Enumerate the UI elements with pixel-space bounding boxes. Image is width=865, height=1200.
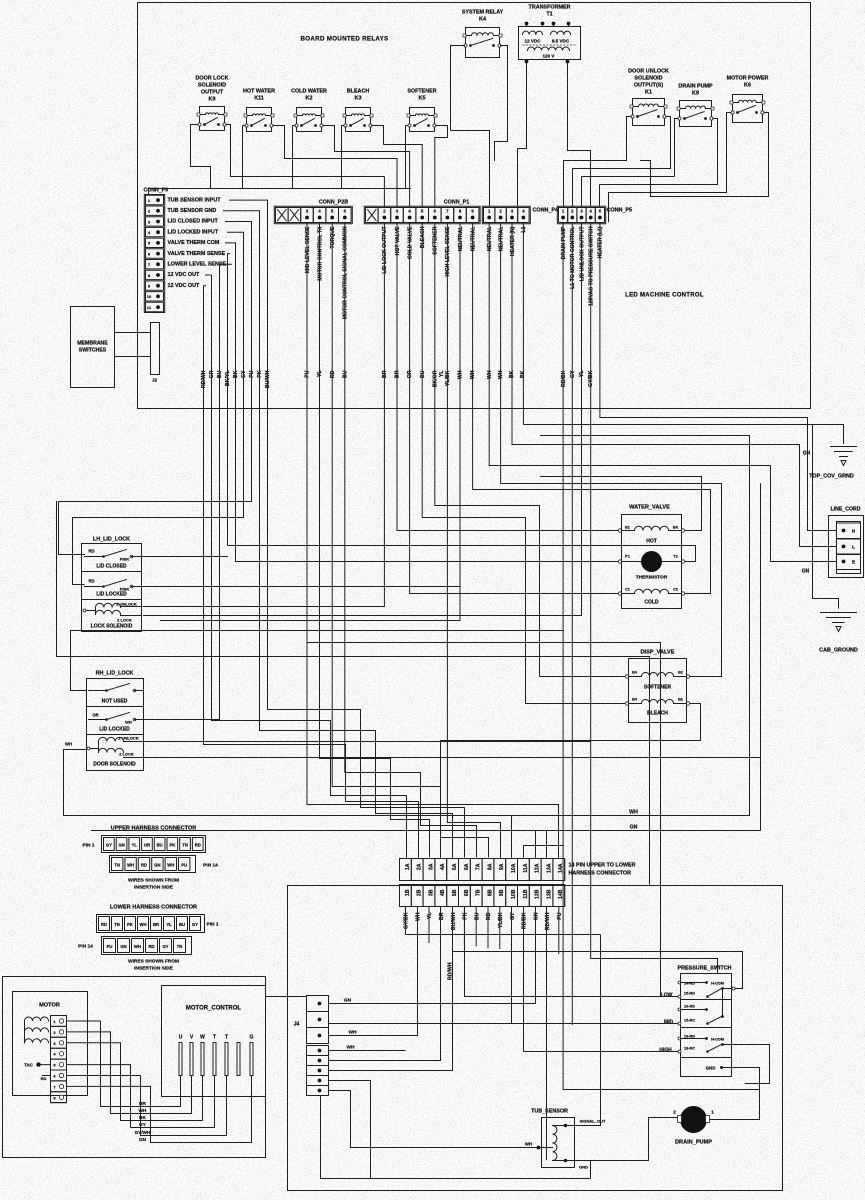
svg-text:11A: 11A [523,863,529,872]
lead [539,1147,553,1149]
svg-text:15-RD: 15-RD [684,992,695,996]
svg-text:TUB_SENSOR: TUB_SENSOR [531,1109,568,1115]
lead [681,982,706,984]
svg-text:BR: BR [153,922,159,927]
svg-text:VALVE THERM SENSE: VALVE THERM SENSE [168,251,226,257]
wire relay rail [149,188,411,190]
x [368,210,377,221]
svg-text:HARNESS CONNECTOR: HARNESS CONNECTOR [569,871,632,877]
wire 13A stub [546,831,548,858]
wire tub signal out [406,907,601,1126]
svg-text:TOP_COV_GRND: TOP_COV_GRND [809,474,854,480]
svg-text:TN: TN [177,944,183,949]
svg-text:K6: K6 [744,83,751,89]
svg-text:NEUTRAL: NEUTRAL [498,226,504,252]
svg-text:LH_LID_LOCK: LH_LID_LOCK [93,537,130,543]
14 pin upper to lower harness connector [400,859,636,907]
svg-text:WH: WH [65,742,72,747]
lead [124,757,144,759]
svg-text:J2: J2 [152,378,158,383]
lead [680,108,686,110]
svg-text:LID LOCK OUTPUT: LID LOCK OUTPUT [382,226,388,274]
svg-text:3A: 3A [428,863,434,870]
svg-text:WH: WH [629,810,638,816]
thermistor [618,560,621,563]
x [290,210,299,221]
wire neutral 2 [473,224,711,594]
lower harness connector [78,905,219,972]
lead [674,703,687,705]
svg-text:COLD WATER: COLD WATER [291,89,327,95]
svg-text:LID LOCKED: LID LOCKED [96,592,127,598]
svg-text:BLEACH: BLEACH [647,711,668,717]
relay K11 [243,89,275,132]
sw [685,112,705,119]
wire 12vdc out b [204,286,419,858]
lead [200,114,206,116]
wire J4 b5 [329,1091,537,1148]
wire K9 right to CONN_P1 pin1 [226,125,384,207]
lead [466,35,472,37]
svg-text:YL: YL [579,370,585,377]
svg-text:MID LEVEL SENSE: MID LEVEL SENSE [305,226,311,273]
lead [135,719,144,721]
sw [415,119,428,126]
wire bleach right loop [441,704,701,858]
low com out [723,988,732,990]
svg-text:PU: PU [107,944,113,949]
sw [351,119,364,126]
svg-text:120VAC TO PRESSURE SWITCH: 120VAC TO PRESSURE SWITCH [589,226,595,306]
wire 6B stub [463,907,465,946]
svg-text:BLEACH: BLEACH [420,226,426,248]
svg-text:MOTOR POWER: MOTOR POWER [727,76,769,82]
svg-text:MOTOR CONTROL TX: MOTOR CONTROL TX [317,226,323,281]
svg-text:WH: WH [167,863,174,868]
connector CONN_P1 [364,200,480,224]
membrane wire [115,332,151,334]
wire bleach valve [422,224,627,704]
wire J4 b2 [329,907,441,1061]
svg-text:BR: BR [439,912,445,920]
sw [638,110,658,117]
sw [104,580,127,587]
wire hot valve [397,224,620,531]
wire water valve top loop [541,436,750,816]
wire pressure mid J4 L [329,1023,679,1025]
svg-text:MOTOR: MOTOR [39,1003,60,1009]
svg-text:CONN_P5: CONN_P5 [607,208,632,214]
pressure switch [659,966,735,1077]
svg-text:MOTOR CONTROL SIGNAL COMMON: MOTOR CONTROL SIGNAL COMMON [343,226,349,319]
membrane switches box [71,307,115,388]
svg-text:YL: YL [166,922,172,927]
svg-text:L: L [852,545,855,550]
sw [302,119,315,126]
drain pump [673,1106,714,1146]
membrane wire [115,356,151,358]
divider [681,1027,732,1029]
lead [266,115,272,117]
motor wire BK [67,1043,203,1121]
wire rd/wh low com feed [453,907,743,989]
svg-text:2: 2 [673,1110,676,1115]
gnd3 [833,622,845,624]
svg-text:4A: 4A [440,863,446,870]
connector CONN_P9 [144,188,169,313]
svg-text:RD: RD [88,579,94,584]
motor wire BR [67,1021,181,1107]
svg-text:2A: 2A [417,863,423,870]
svg-text:DOOR SOLENOID: DOOR SOLENOID [93,762,136,768]
wire 2B down [417,907,419,1037]
svg-text:GY/WH: GY/WH [135,1130,151,1135]
svg-text:13A: 13A [546,863,552,873]
svg-text:4B: 4B [440,889,446,896]
lead [85,556,104,558]
wire tub sensor input [230,200,465,857]
svg-text:GY: GY [241,370,247,378]
wire rail drop to CONN_P9 [148,189,150,195]
lead [135,690,144,692]
wire neutral to line cord N [489,224,836,562]
svg-text:CAB_GROUND: CAB_GROUND [819,648,858,654]
svg-text:RD/BK: RD/BK [522,912,528,929]
svg-text:PIN 1: PIN 1 [207,922,219,928]
svg-text:SYSTEM RELAY: SYSTEM RELAY [462,10,504,16]
wire drain pump left [591,1118,678,1161]
lead [706,108,712,110]
lead [316,115,322,117]
coil lead [98,742,100,753]
svg-text:HEATER (L1): HEATER (L1) [598,226,604,258]
svg-text:YL: YL [132,843,138,848]
wire K5 right to SOFTENER pin [435,126,448,207]
svg-text:RD: RD [148,944,154,949]
lead [89,719,107,721]
wire cold valve [410,224,620,594]
tac lead [39,1064,51,1066]
svg-text:2 LOCK: 2 LOCK [119,752,134,757]
wire rh wh [64,750,88,816]
lead [733,102,739,104]
svg-text:YL: YL [427,912,433,919]
wire T1 bottom pin2 to CONN_P5 [568,62,591,207]
svg-text:WH: WH [125,720,132,725]
x [278,210,287,221]
svg-text:WH: WH [487,370,493,379]
wire K6 right pin [641,113,769,197]
svg-text:WIRES SHOWN FROM: WIRES SHOWN FROM [128,878,179,884]
svg-text:BLEACH: BLEACH [347,89,370,95]
svg-text:K8: K8 [692,91,699,97]
svg-text:3B: 3B [428,889,434,896]
svg-text:SIGNAL_OUT: SIGNAL_OUT [580,1119,606,1124]
svg-text:BU: BU [420,370,426,378]
svg-text:NEUTRAL: NEUTRAL [470,226,476,252]
svg-text:LOW: LOW [661,993,673,999]
lead [622,530,635,532]
svg-text:BU: BU [217,370,223,378]
wire hot right loop [541,477,702,531]
svg-text:VALVE THERM COM: VALVE THERM COM [168,240,220,246]
relay K1 [628,69,669,126]
high com out [723,1044,732,1046]
svg-text:WATER_VALVE: WATER_VALVE [629,505,670,511]
svg-text:THERMISTOR: THERMISTOR [636,575,668,581]
lead [132,556,142,558]
svg-text:LID LOCKED INPUT: LID LOCKED INPUT [168,229,219,235]
svg-text:GY: GY [570,370,576,378]
wire RD to 8A [332,224,488,858]
svg-text:WH: WH [140,922,147,927]
wire GN ground wire [92,484,761,831]
pin stub [553,24,555,27]
svg-text:BU/WH: BU/WH [265,370,271,388]
sw [107,713,130,720]
motor coil bus [24,1021,26,1043]
wire drain pump feed [563,224,759,1120]
motor assembly [13,992,88,1103]
svg-text:GY: GY [162,944,168,949]
svg-text:HOT: HOT [646,539,657,545]
svg-text:LID LOCKED: LID LOCKED [99,727,130,733]
svg-text:SOLENOID: SOLENOID [634,76,662,82]
wire 7B stub [475,907,477,947]
svg-text:GY: GY [510,912,516,920]
svg-text:GN: GN [139,1137,147,1142]
lead [553,1160,566,1162]
wire K5 left pin [406,126,409,189]
svg-text:P/BK: P/BK [120,587,130,592]
sw [107,684,130,691]
svg-text:SOFTENER: SOFTENER [433,226,439,254]
svg-text:P1: P1 [625,555,630,559]
svg-text:E: E [852,560,855,565]
svg-text:13B: 13B [546,889,552,899]
wire T1 bottom pin to CONN_P4 L1 [518,62,527,207]
svg-text:WH: WH [127,863,134,868]
tub sensor [525,1109,606,1170]
connector CONN_P2B [274,200,352,224]
wire J4 b4 [329,1081,371,1179]
upper harness connector [83,826,219,891]
relay K5 [407,89,437,132]
svg-text:RD/WH: RD/WH [201,370,207,388]
svg-text:DRAIN_PUMP: DRAIN_PUMP [675,1140,712,1146]
svg-text:INSERTION SIDE: INSERTION SIDE [134,885,173,891]
pin stub [526,24,528,27]
svg-text:RD: RD [88,549,94,554]
wire 12vdc out a [206,275,407,857]
wire K11 left pin [243,126,246,189]
svg-text:BOARD MOUNTED RELAYS: BOARD MOUNTED RELAYS [301,36,389,43]
wire 10A stub [511,816,513,858]
lead [674,676,687,678]
dispenser valve assembly [625,650,689,723]
svg-text:2 LOCK: 2 LOCK [117,618,132,623]
svg-text:COLD: COLD [644,600,659,606]
svg-text:CONN_P2B: CONN_P2B [319,200,348,206]
lead [629,703,642,705]
lead [85,586,104,588]
svg-text:WH: WH [458,370,464,379]
svg-text:GN: GN [630,825,638,831]
wire left bus 656 [57,502,650,885]
gnd2 [827,617,851,619]
svg-text:15-RC: 15-RC [684,1019,695,1023]
lead [662,561,682,563]
svg-text:2B: 2B [417,889,423,896]
svg-text:12B: 12B [535,889,541,899]
LH lid lock box [82,537,142,632]
svg-text:GY: GY [106,843,112,848]
wire neutral L [512,224,837,547]
svg-text:TN: TN [114,863,120,868]
wire MC to J4 [266,996,307,998]
svg-text:K4: K4 [479,17,486,23]
svg-text:TN: TN [182,843,188,848]
svg-text:SWITCHES: SWITCHES [79,348,107,354]
wire lid closed out [142,556,228,558]
wire K2 right to COLD VALVE pin [323,126,410,207]
svg-text:YL/BK: YL/BK [498,912,504,928]
lead [297,115,303,117]
wire K1 right pin [573,117,671,207]
svg-text:DISP_VALVE: DISP_VALVE [641,650,675,656]
svg-text:TUB SENSOR GND: TUB SENSOR GND [168,208,217,214]
divider [681,999,732,1001]
svg-text:TRANSFORMER: TRANSFORMER [529,5,571,11]
lead [365,115,371,117]
svg-text:HEATER (N): HEATER (N) [510,226,516,256]
svg-text:DRAIN PUMP: DRAIN PUMP [561,226,567,259]
lead [89,690,107,692]
svg-text:LOWER HARNESS CONNECTOR: LOWER HARNESS CONNECTOR [110,905,197,911]
svg-text:GN: GN [802,569,810,575]
divider [82,571,142,573]
svg-text:B2: B2 [678,671,683,675]
gnd1 [831,446,857,448]
svg-text:7B: 7B [476,889,482,896]
svg-text:PU: PU [557,912,563,919]
lead [553,1125,566,1127]
svg-text:10: 10 [147,294,152,299]
svg-text:OR: OR [92,713,98,718]
svg-text:RD: RD [41,1076,47,1081]
lead [121,615,142,617]
wire J4 b3 [329,907,453,1071]
lead [410,115,416,117]
svg-text:MID: MID [664,1020,674,1026]
wire softener valve [435,224,627,677]
wire 14B stub [558,907,560,954]
wire L1 to motor control [571,224,573,1025]
coil lead [90,748,99,750]
svg-text:5B: 5B [452,889,458,896]
sw [708,1045,722,1052]
svg-text:K2: K2 [306,96,313,102]
svg-text:BK: BK [233,370,239,378]
tac lead2 [43,1075,51,1077]
svg-text:L1: L1 [521,226,527,232]
lead [124,741,144,743]
wire K4 left pin [451,46,490,207]
svg-text:OUTPUT(S): OUTPUT(S) [634,83,664,89]
svg-text:12 VDC OUT: 12 VDC OUT [168,272,200,278]
lead [429,115,435,117]
svg-text:BR: BR [395,370,401,378]
svg-text:RD: RD [195,843,201,848]
wire heater L1 to line cord [600,224,837,531]
svg-text:WIRES SHOWN FROM: WIRES SHOWN FROM [128,959,179,965]
svg-text:RD: RD [330,370,336,378]
relay K9 [196,76,229,131]
wire valve therm com [226,243,621,562]
ground CAB_GROUND [819,613,858,654]
wire high level sense [447,224,500,858]
divider [87,706,144,708]
x [368,210,377,221]
svg-text:GR: GR [209,370,215,378]
svg-text:UPPER HARNESS CONNECTOR: UPPER HARNESS CONNECTOR [111,826,197,832]
sw [708,989,722,997]
svg-text:12 VDC: 12 VDC [524,39,541,44]
lead [629,676,642,678]
svg-text:C2: C2 [673,588,678,592]
svg-text:LOWER LEVEL SENSE: LOWER LEVEL SENSE [168,262,227,268]
svg-text:T: T [225,1035,228,1041]
wire YL to 3A [320,224,430,858]
svg-text:C1: C1 [625,588,630,592]
x [290,210,299,221]
svg-text:GND: GND [706,1066,716,1071]
svg-text:WH: WH [347,1045,356,1051]
svg-text:16-RD: 16-RD [684,1035,695,1039]
svg-text:P/BK: P/BK [120,557,130,562]
wire pressure mid drop [511,907,513,1024]
lead [622,593,635,595]
lead [121,606,142,608]
svg-text:BU/WH: BU/WH [451,912,457,930]
wire K6 left pin [609,113,732,223]
svg-text:LID CLOSED: LID CLOSED [96,564,127,570]
svg-text:8A: 8A [487,863,493,870]
svg-text:DOOR UNLOCK: DOOR UNLOCK [628,69,669,75]
svg-text:MEMBRANE: MEMBRANE [77,341,108,347]
svg-text:LINE_CORD: LINE_CORD [831,507,861,513]
motor wire GY [67,1065,215,1128]
pin stub [568,24,570,27]
svg-text:GND: GND [579,1165,588,1170]
line cord connector [829,507,864,578]
svg-text:TUB SENSOR INPUT: TUB SENSOR INPUT [168,197,222,203]
connector CONN_P4 [482,206,558,223]
lead [633,106,639,108]
wire J4 WH [329,1035,418,1037]
wire pressure high [524,907,679,1052]
coil lead [95,608,97,615]
svg-text:W: W [200,1035,205,1041]
lead [669,593,682,595]
gnd1 [821,612,857,614]
sw [205,118,218,125]
svg-text:6B: 6B [464,889,470,896]
svg-text:16-RD: 16-RD [684,1005,695,1009]
svg-text:6A: 6A [464,863,470,870]
wire K1 left pin to DRAIN PUMP pin [564,117,632,207]
svg-text:K11: K11 [254,96,264,102]
